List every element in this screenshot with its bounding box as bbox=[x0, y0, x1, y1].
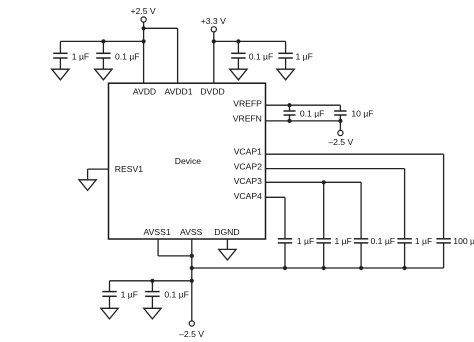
capacitor 0.1 uF (VCAP3) bbox=[354, 236, 395, 268]
svg-text:100 µF: 100 µF bbox=[453, 236, 474, 246]
ground (under 1 uF AVSS bypass) bbox=[101, 308, 118, 319]
node junction on +2.5V rail (AVDD1 branch) bbox=[142, 26, 146, 30]
ground (RESV1) bbox=[79, 180, 96, 191]
wire DGND pin to ground bbox=[226, 239, 228, 249]
svg-text:+3.3 V: +3.3 V bbox=[201, 16, 226, 26]
svg-text:VREFN: VREFN bbox=[233, 114, 262, 124]
wire AVSS to bottom bypass caps bbox=[110, 280, 192, 282]
wire +3.3V rail to right bypass caps bbox=[214, 40, 286, 42]
svg-text:1 µF: 1 µF bbox=[72, 51, 89, 61]
svg-text:AVDD1: AVDD1 bbox=[164, 87, 192, 97]
wire RESV1 pin to ground bbox=[88, 169, 109, 180]
capacitor 1 uF (AVSS bypass) bbox=[102, 281, 138, 309]
power terminal +2.5V (top) bbox=[131, 6, 156, 22]
wire VCAP4 to 1uF cap bbox=[266, 197, 286, 238]
wire VCAP2 to 1uF cap bbox=[266, 169, 405, 239]
node junction bus / 1uF VCAP2 bbox=[403, 266, 407, 270]
svg-text:DVDD: DVDD bbox=[200, 87, 224, 97]
wire branch to AVDD1 pin bbox=[144, 28, 178, 83]
power terminal -2.5V (VREFN) bbox=[328, 130, 353, 147]
ground (under 0.1 uF AVSS bypass) bbox=[144, 308, 161, 319]
svg-text:0.1 µF: 0.1 µF bbox=[371, 236, 396, 246]
node junction VREFP / 0.1uF bbox=[287, 103, 291, 107]
ground (under 1 uF DVDD bypass) bbox=[277, 69, 294, 80]
node junction 0.1uF tap on AVSS rail bbox=[150, 279, 154, 283]
node junction bus / 1uF VCAP3 bbox=[322, 266, 326, 270]
ground (DGND) bbox=[219, 249, 236, 260]
svg-text:1 µF: 1 µF bbox=[121, 290, 138, 300]
capacitor 1 uF (VCAP4) bbox=[278, 236, 314, 268]
capacitor 1 uF (AVDD bypass) bbox=[53, 41, 89, 69]
node junction VREFN / 0.1uF bbox=[287, 119, 291, 123]
node junction VCAP3 / 1uF branch bbox=[322, 180, 326, 184]
IC U1 Device (main IC body) bbox=[109, 83, 266, 239]
power terminal +3.3V (top) bbox=[201, 16, 226, 32]
svg-text:VCAP3: VCAP3 bbox=[234, 176, 262, 186]
svg-text:+2.5 V: +2.5 V bbox=[131, 6, 156, 16]
svg-text:0.1 µF: 0.1 µF bbox=[115, 51, 140, 61]
svg-text:VCAP1: VCAP1 bbox=[234, 147, 262, 157]
svg-text:0.1 µF: 0.1 µF bbox=[249, 51, 274, 61]
capacitor 1 uF (DVDD bypass) bbox=[278, 41, 312, 69]
wire cap-bank return bus to AVSS bbox=[192, 267, 444, 269]
capacitor 0.1 uF (VREF) bbox=[284, 105, 325, 121]
node junction AVSS / cap-bank bus bbox=[190, 266, 194, 270]
svg-text:1 µF: 1 µF bbox=[296, 51, 313, 61]
node junction bus / 1uF VCAP4 bbox=[283, 266, 287, 270]
ground (under 1 uF AVDD bypass) bbox=[52, 69, 69, 80]
wire +2.5V to AVDD pin bbox=[143, 22, 145, 83]
svg-text:AVDD: AVDD bbox=[133, 87, 156, 97]
wire AVSS pin to -2.5V terminal bbox=[191, 239, 193, 321]
wire VCAP3 branch to 1uF cap bbox=[323, 182, 325, 238]
svg-text:AVSS: AVSS bbox=[180, 227, 203, 237]
svg-text:Device: Device bbox=[175, 156, 201, 166]
svg-text:0.1 µF: 0.1 µF bbox=[300, 108, 325, 118]
node junction on +2.5V rail (bypass branch) bbox=[142, 39, 146, 43]
svg-text:1 µF: 1 µF bbox=[415, 236, 432, 246]
wire VREFN pin bbox=[266, 120, 341, 122]
capacitor 10 uF (VREF) bbox=[334, 105, 373, 121]
ground (under 0.1 uF DVDD bypass) bbox=[230, 69, 247, 80]
wire VREFP pin bbox=[266, 104, 341, 106]
node junction 0.1uF tap on +3.3V rail bbox=[236, 39, 240, 43]
svg-text:1 µF: 1 µF bbox=[335, 236, 352, 246]
svg-text:VCAP2: VCAP2 bbox=[234, 161, 262, 171]
svg-text:VREFP: VREFP bbox=[233, 99, 262, 109]
node junction bus / 0.1uF VCAP3 bbox=[359, 266, 363, 270]
wire VCAP1 to 100uF cap bbox=[266, 154, 444, 239]
wire +2.5V rail to left bypass caps bbox=[60, 40, 143, 42]
svg-text:VCAP4: VCAP4 bbox=[234, 191, 262, 201]
wire AVSS1 pin to AVSS bbox=[158, 239, 192, 256]
node junction AVSS / AVSS1 bbox=[190, 254, 194, 258]
svg-text:–2.5 V: –2.5 V bbox=[179, 329, 204, 339]
svg-text:RESV1: RESV1 bbox=[115, 164, 143, 174]
svg-text:10 µF: 10 µF bbox=[351, 108, 373, 118]
wire VREFN node to -2.5V terminal bbox=[339, 121, 341, 130]
capacitor 1 uF (VCAP3) bbox=[317, 236, 352, 268]
capacitor 0.1 uF (DVDD bypass) bbox=[231, 41, 273, 69]
svg-text:0.1 µF: 0.1 µF bbox=[164, 290, 189, 300]
node junction on +3.3V rail bbox=[212, 39, 216, 43]
power terminal -2.5V (AVSS) bbox=[179, 321, 204, 339]
ground (under 0.1 uF AVDD bypass) bbox=[95, 69, 112, 80]
svg-text:–2.5 V: –2.5 V bbox=[328, 137, 353, 147]
capacitor 1 uF (VCAP2) bbox=[397, 236, 432, 268]
wire +3.3V to DVDD pin bbox=[213, 32, 215, 83]
svg-text:AVSS1: AVSS1 bbox=[144, 227, 171, 237]
svg-text:DGND: DGND bbox=[214, 227, 239, 237]
capacitor 0.1 uF (AVSS bypass) bbox=[145, 281, 189, 309]
node junction VREFN / 10uF / -2.5V bbox=[338, 119, 342, 123]
wire VCAP3 to 0.1uF cap bbox=[266, 182, 362, 238]
capacitor 0.1 uF (AVDD bypass) bbox=[96, 41, 139, 69]
node junction 0.1uF tap on +2.5V rail bbox=[101, 39, 105, 43]
svg-text:1 µF: 1 µF bbox=[297, 236, 314, 246]
node junction AVSS / bypass caps bbox=[190, 279, 194, 283]
capacitor 100 uF (VCAP1) bbox=[436, 236, 474, 268]
